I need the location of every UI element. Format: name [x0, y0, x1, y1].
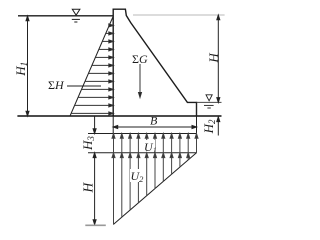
heel extension below ground — [112, 116, 114, 134]
upstream water level symbol (nabla) — [72, 9, 80, 22]
water pressure triangle hypotenuse — [70, 16, 113, 116]
U2 label — [130, 169, 144, 184]
sum H leader line — [67, 85, 101, 87]
U1 uplift arrows (rectangle band) — [112, 134, 198, 153]
tailwater level line — [197, 101, 222, 103]
water level extension line top right — [133, 14, 225, 16]
H2 dimension arrow (below ground, pointing up) — [217, 117, 220, 136]
svg-text:H: H — [206, 53, 221, 64]
upstream water surface line — [18, 15, 113, 17]
dam body outline — [113, 9, 196, 116]
H1 dimension line — [26, 16, 29, 116]
H dimension line (right) — [217, 15, 220, 102]
H dimension line (bottom left) — [93, 153, 96, 225]
ground line — [17, 115, 221, 117]
uplift diagram middle line — [88, 152, 197, 154]
U2 uplift arrows (triangle) — [112, 153, 190, 225]
svg-text:ΣG: ΣG — [132, 52, 148, 66]
sum G arrow — [139, 64, 142, 98]
U1 label — [142, 140, 157, 155]
uplift diagram top line — [88, 133, 197, 135]
svg-text:H: H — [80, 182, 95, 194]
downstream water level symbol (nabla) — [204, 95, 214, 108]
svg-text:ΣH: ΣH — [48, 78, 65, 92]
toe extension below ground — [196, 102, 198, 152]
H3 dimension upper arrow (below ground, pointing down) — [93, 116, 96, 134]
U2 triangle hypotenuse — [113, 153, 196, 225]
svg-text:B: B — [150, 114, 158, 128]
water pressure arrows — [71, 24, 113, 115]
base level tick (bottom) — [85, 224, 106, 226]
B dimension line — [113, 126, 196, 129]
